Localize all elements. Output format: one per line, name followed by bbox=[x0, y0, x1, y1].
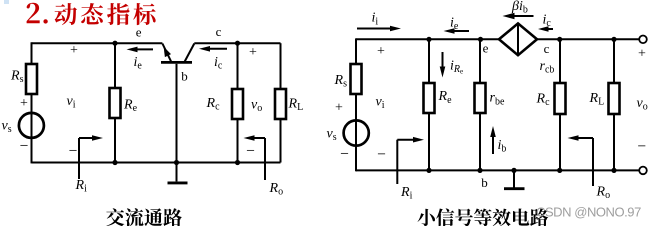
wire Rc column lower (right) bbox=[559, 114, 561, 170]
svg-text:+: + bbox=[335, 100, 343, 115]
junction dot ground (right) bbox=[511, 168, 516, 173]
wire top rail right segment bbox=[194, 42, 280, 44]
wire Re column upper bbox=[114, 43, 116, 88]
resistor Re (right) bbox=[424, 83, 435, 113]
svg-text:b: b bbox=[181, 68, 188, 83]
wire Re column lower bbox=[114, 118, 116, 163]
node dot c (right) bbox=[557, 37, 562, 42]
svg-text:CSDN @NONO.97: CSDN @NONO.97 bbox=[536, 205, 641, 220]
svg-text:+: + bbox=[249, 45, 257, 60]
wire left branch lower bbox=[31, 94, 33, 163]
resistor Rs (right) bbox=[351, 64, 362, 94]
wire RL column lower (left) bbox=[280, 118, 282, 163]
node dot e (right) bbox=[478, 37, 483, 42]
wire rbe column upper (right) bbox=[479, 39, 481, 83]
wire RL column upper (right) bbox=[613, 39, 615, 83]
resistor Re (left) bbox=[110, 88, 121, 118]
node dot bottom of Re (right) bbox=[426, 168, 431, 173]
wire base stem to bottom rail bbox=[176, 64, 178, 163]
current ic arrow (right) bbox=[548, 28, 554, 30]
svg-text:−: − bbox=[20, 137, 29, 154]
wire Rc column lower (left) bbox=[237, 118, 239, 163]
wire rbe column lower (right) bbox=[479, 113, 481, 170]
resistor Rc (right) bbox=[555, 83, 566, 114]
wire Re column lower (right) bbox=[428, 113, 430, 170]
node dot top of Rc (left) bbox=[235, 41, 240, 46]
wire bottom rail bbox=[32, 162, 281, 164]
node dot bottom of RL (right) bbox=[611, 168, 616, 173]
node dot b (right) bbox=[477, 168, 482, 173]
source vs (left) bbox=[19, 113, 44, 138]
wire top rail from diamond to + terminal bbox=[537, 38, 639, 40]
svg-text:c: c bbox=[544, 41, 550, 56]
wire RL column upper (left) bbox=[280, 43, 282, 89]
dependent current source beta*ib (diamond) bbox=[499, 23, 537, 55]
junction dot base/bottom rail (left) bbox=[174, 160, 179, 165]
resistor RL (right) bbox=[609, 83, 620, 114]
current ib arrow (right) bbox=[492, 136, 494, 154]
svg-text:e: e bbox=[136, 24, 142, 39]
wire source branch upper (right) bbox=[355, 38, 357, 64]
wire left branch upper bbox=[31, 42, 33, 64]
current ie arrow (left) bbox=[137, 48, 154, 50]
resistor RL (left) bbox=[275, 89, 286, 119]
wire Rc column upper (left) bbox=[237, 43, 239, 89]
current ii arrow (right) bbox=[357, 28, 391, 30]
wire bottom rail (right) bbox=[356, 169, 639, 171]
wire Re column upper (right) bbox=[428, 39, 430, 83]
blue smudge artifact top-left bbox=[4, 0, 9, 4]
resistor rbe (right) bbox=[475, 83, 486, 113]
input resistance Ri arrow (right) bbox=[396, 140, 398, 184]
caption: AC path bbox=[106, 208, 182, 226]
svg-text:−: − bbox=[69, 142, 78, 159]
source vs (right) bbox=[344, 120, 369, 145]
svg-text:+: + bbox=[377, 44, 385, 59]
output terminal + (right) bbox=[639, 36, 647, 44]
wire Rc column upper (right) bbox=[559, 39, 561, 83]
node dot bottom of Rc (right) bbox=[557, 168, 562, 173]
svg-text:b: b bbox=[481, 175, 488, 190]
svg-text:c: c bbox=[216, 24, 222, 39]
node dot top of RL (right) bbox=[611, 37, 616, 42]
node dot top of Re (right) bbox=[426, 37, 431, 42]
svg-text:+: + bbox=[638, 46, 646, 61]
output resistance Ro arrow (right) bbox=[592, 138, 594, 186]
transistor (BJT, common-base orientation) bbox=[161, 61, 192, 64]
current beta*ib arrow bbox=[514, 15, 534, 17]
svg-text:e: e bbox=[483, 40, 489, 55]
node dot bottom of Re (left) bbox=[112, 160, 117, 165]
svg-text:+: + bbox=[70, 43, 78, 58]
input resistance Ri arrow (left) bbox=[78, 138, 80, 179]
output terminal - (right) bbox=[639, 167, 647, 175]
caption: small-signal equivalent circuit bbox=[418, 208, 549, 226]
node dot top of Re (left) bbox=[112, 41, 117, 46]
svg-text:+: + bbox=[20, 96, 28, 111]
svg-text:−: − bbox=[377, 146, 386, 163]
wire top rail left segment bbox=[32, 42, 163, 44]
svg-text:−: − bbox=[637, 138, 646, 155]
ground (left) bbox=[176, 163, 178, 182]
current iRe arrow (right) bbox=[442, 52, 444, 68]
svg-text:−: − bbox=[246, 142, 255, 159]
resistor Rc (left) bbox=[232, 89, 243, 119]
current ic arrow (left) bbox=[209, 48, 227, 50]
wire RL column lower (right) bbox=[613, 114, 615, 170]
resistor Rs (left) bbox=[26, 64, 37, 94]
output resistance Ro arrow (left) bbox=[264, 138, 266, 180]
title 2. dongtai zhibiao bbox=[27, 3, 156, 25]
svg-text:−: − bbox=[340, 145, 349, 162]
node dot bottom of Rc (left) bbox=[235, 160, 240, 165]
wire top rail to diamond (right) bbox=[356, 38, 499, 40]
current ie arrow (right) bbox=[454, 30, 470, 32]
